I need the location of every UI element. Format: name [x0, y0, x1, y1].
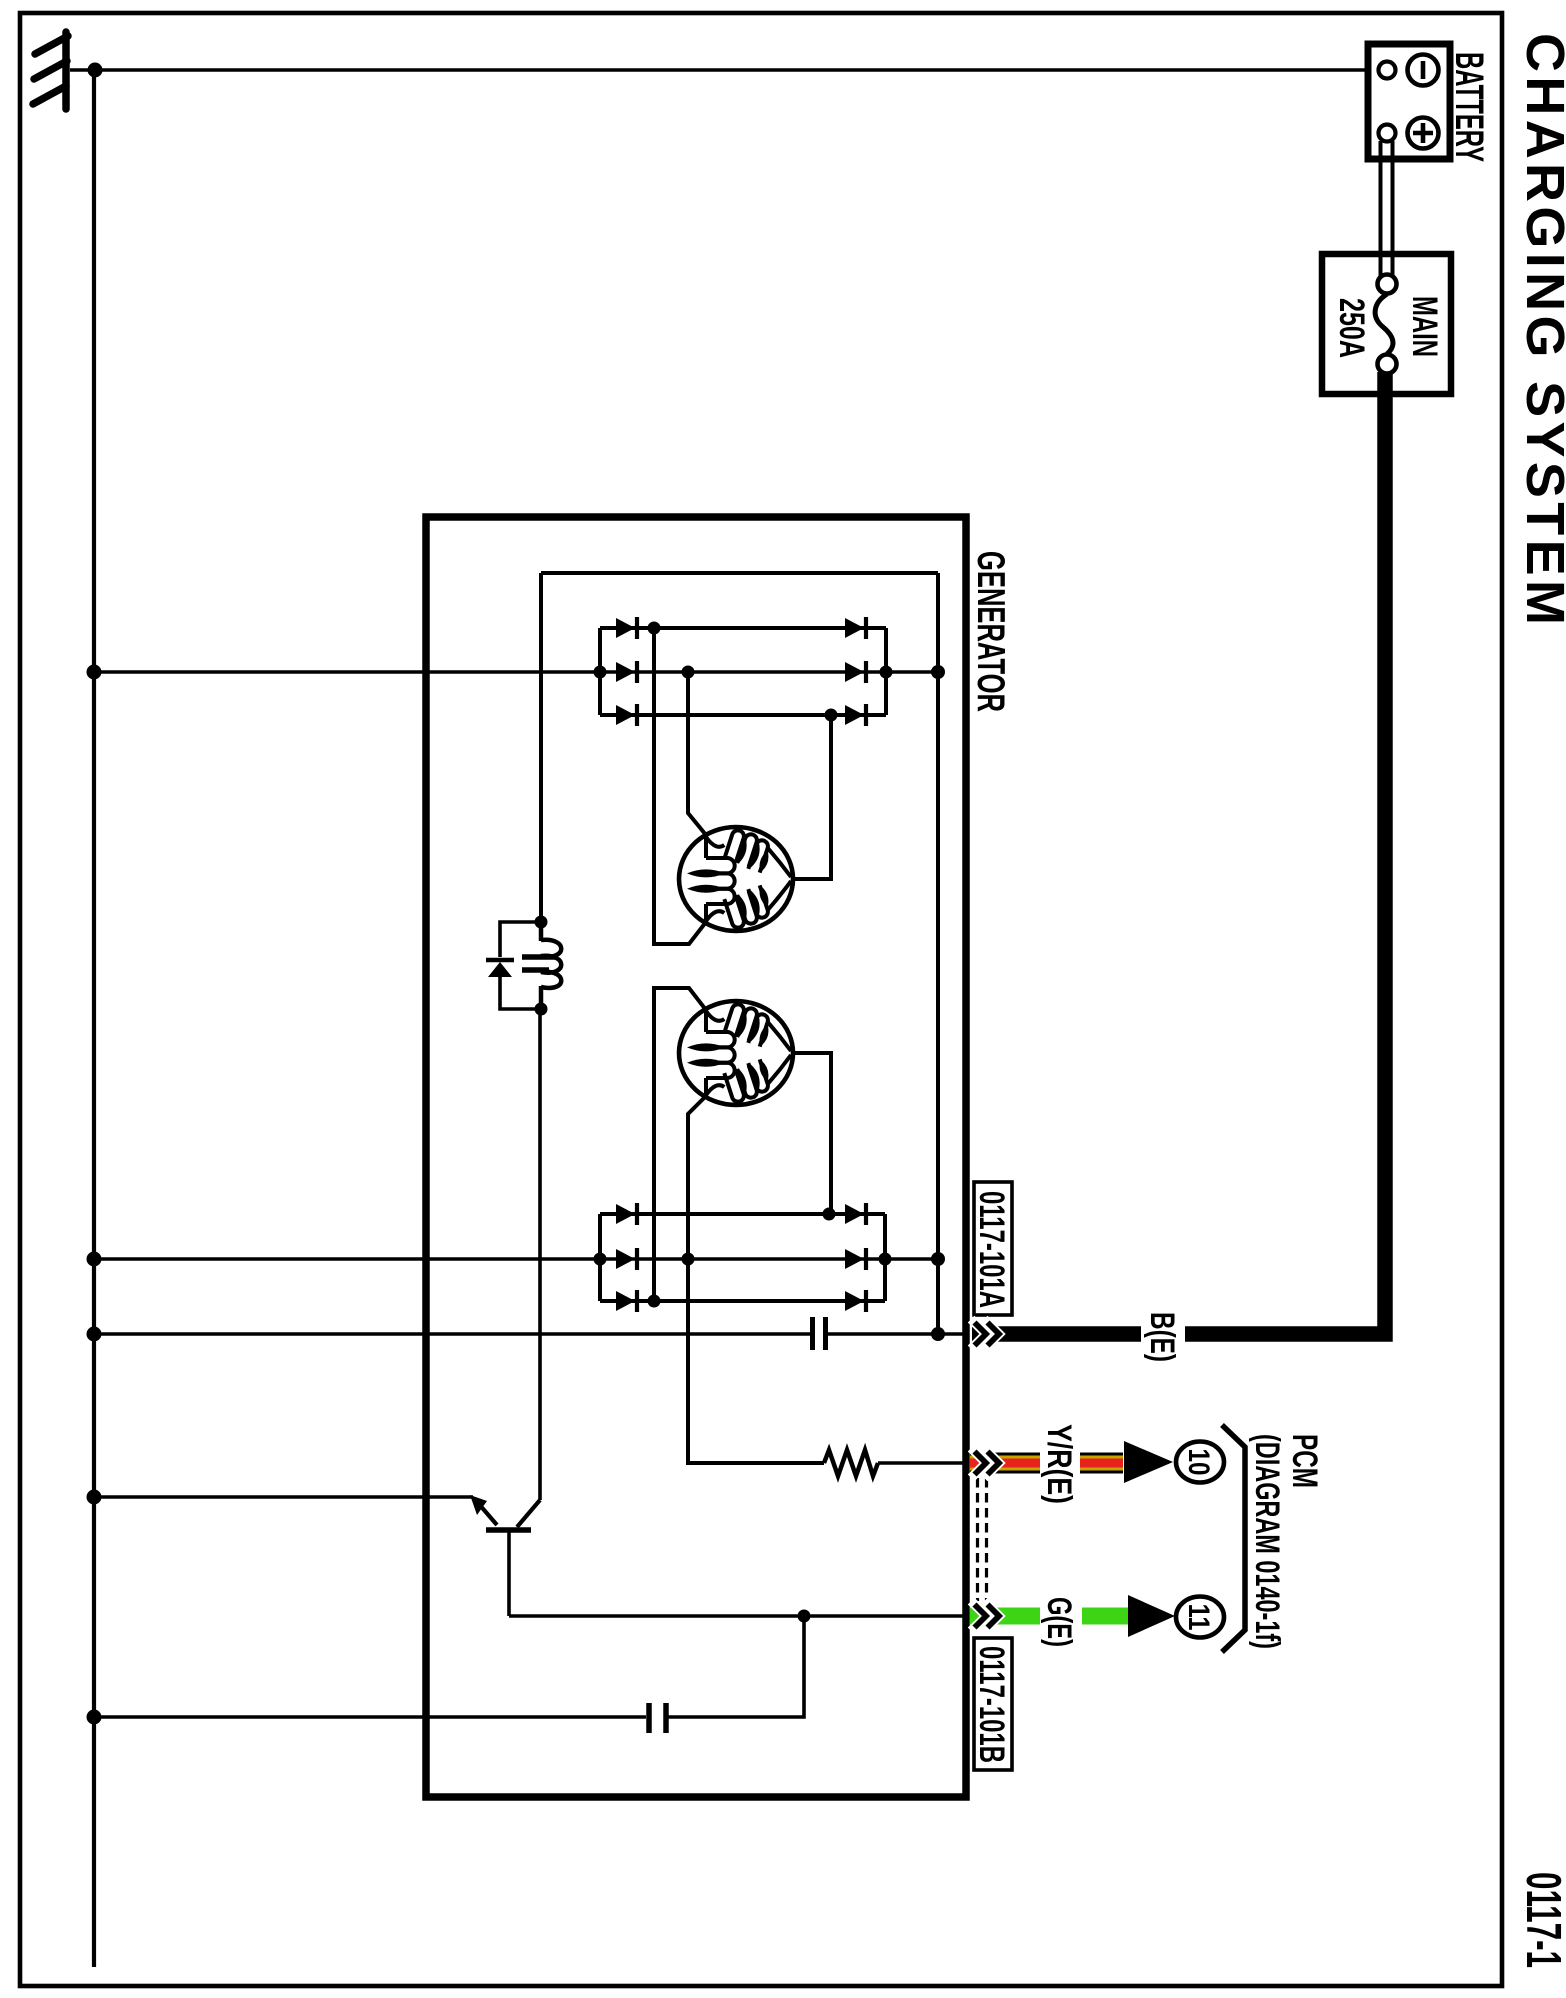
svg-text:PCM: PCM — [1285, 1434, 1324, 1488]
svg-text:11: 11 — [1182, 1604, 1215, 1631]
svg-text:10: 10 — [1182, 1449, 1215, 1476]
PCM bracket — [1222, 1425, 1245, 1652]
node bridge1 rail left row2 — [594, 666, 607, 679]
arrow to pin 11 — [1128, 1595, 1175, 1637]
arrow to pin 10 — [1124, 1441, 1173, 1483]
fuse F1 MAIN box — [1322, 254, 1451, 394]
capacitor C1 — [813, 1317, 826, 1350]
diode D7 — [616, 1203, 637, 1225]
generator box — [426, 517, 966, 1797]
wire ground to node — [70, 68, 95, 72]
node bridge2 row3 — [648, 1295, 661, 1308]
svg-text:G(E): G(E) — [1040, 1597, 1078, 1647]
connector chevron G(E) — [975, 1605, 1000, 1628]
diode D4 — [845, 617, 866, 639]
ground — [33, 32, 68, 109]
node cap2 left rail — [87, 1710, 102, 1725]
wire top horizontal to battery minus — [95, 68, 1368, 72]
wire stator1 lead V — [654, 628, 706, 944]
resistor R1 — [824, 1450, 878, 1476]
node bridge2 B+ bus — [931, 1252, 945, 1266]
wire emitter row — [94, 1495, 473, 1499]
stator winding L2 — [679, 1001, 793, 1105]
node field bottom — [535, 1003, 548, 1016]
wire stator2 lead W — [793, 1053, 831, 1214]
svg-text:250A: 250A — [1332, 298, 1371, 358]
node bridge2 rail right row2 — [879, 1253, 892, 1266]
wire dashed twist pair — [978, 1478, 987, 1601]
wire battery to fuse double line — [1381, 141, 1393, 276]
svg-text:(DIAGRAM 0140-1f): (DIAGRAM 0140-1f) — [1248, 1434, 1286, 1649]
diode D10 — [845, 1203, 866, 1225]
node bridge1 rail right row2 — [880, 666, 893, 679]
rectifier bridge 2 rails — [600, 1214, 885, 1301]
node gate row — [798, 1610, 811, 1623]
rectifier bridge 1 rails — [600, 628, 886, 715]
diode D6 — [845, 704, 866, 726]
svg-text:0117-101B: 0117-101B — [972, 1646, 1011, 1763]
fuse top pin — [1378, 275, 1397, 294]
fuse bottom pin — [1378, 355, 1397, 374]
node left rail row2 top — [87, 665, 102, 680]
pin 10 circle — [1176, 1442, 1224, 1483]
node bridge1 row1 — [648, 622, 661, 635]
diode D2 — [616, 661, 637, 683]
inductor L3 field coil — [541, 922, 561, 1009]
wire B(E) thick battery feed — [972, 372, 1385, 1334]
wire stator1 lead W — [793, 715, 831, 879]
stator winding L1 — [679, 827, 793, 931]
label connector 0117-101B — [972, 1638, 1012, 1770]
svg-text:MAIN: MAIN — [1405, 296, 1444, 357]
diode D12 — [845, 1290, 866, 1312]
svg-text:Y/R(E): Y/R(E) — [1040, 1424, 1078, 1504]
wire rectifier bottom row2 — [94, 1257, 938, 1261]
node bridge1 phase U tap — [682, 666, 695, 679]
wire stator1 lead U — [688, 672, 706, 835]
wire base lead — [507, 1532, 511, 1616]
battery minus symbol — [1408, 55, 1439, 86]
pin 11 circle — [1176, 1597, 1224, 1638]
battery U1 box — [1368, 44, 1450, 159]
svg-text:0117-1: 0117-1 — [1516, 1872, 1566, 1968]
node ground junction — [88, 63, 103, 78]
capacitor C1 row — [94, 1332, 810, 1336]
battery minus terminal pin — [1379, 62, 1396, 79]
wire field diode branch — [500, 922, 541, 957]
capacitor C2 — [649, 1703, 666, 1733]
diode D13 field flyback — [486, 960, 514, 977]
wire inner B+ loop top — [541, 571, 938, 575]
node bridge1 B+ bus row2 — [931, 665, 945, 679]
node cap1 bus — [931, 1327, 945, 1341]
svg-text:0117-101A: 0117-101A — [972, 1191, 1011, 1308]
wire gate row to connector — [509, 1614, 966, 1618]
diode D5 — [845, 661, 866, 683]
wire B+ vertical bus — [936, 573, 940, 1334]
svg-text:BATTERY: BATTERY — [1447, 52, 1491, 162]
wire stator2 lead V — [654, 988, 706, 1301]
svg-text:B(E): B(E) — [1143, 1312, 1181, 1362]
node left rail row2 bottom — [87, 1252, 102, 1267]
diode D3 — [616, 704, 637, 726]
connector chevron B(E) — [975, 1323, 1000, 1346]
wire left ground rail — [92, 70, 96, 1967]
fuse element — [1375, 294, 1393, 354]
node cap1 left rail — [87, 1327, 102, 1342]
connector chevron Y/R(E) — [975, 1452, 1000, 1475]
wire rectifier top row2 phase U — [94, 670, 938, 674]
node emitter rail — [87, 1490, 102, 1505]
node bridge2 phase tap — [682, 1253, 695, 1266]
capacitor C2 row — [94, 1715, 646, 1719]
node field top — [535, 916, 548, 929]
diode D11 — [845, 1248, 866, 1270]
wire field feed vertical — [539, 573, 543, 922]
node bridge1 row3 — [825, 709, 838, 722]
label connector 0117-101A — [972, 1182, 1012, 1315]
diode D1 — [616, 617, 637, 639]
wire collector vertical — [538, 1009, 542, 1500]
wire stator2 lead U resistor feed — [688, 1096, 824, 1463]
svg-text:GENERATOR: GENERATOR — [969, 551, 1012, 712]
wire resistor to connector — [878, 1461, 966, 1465]
wire Y/R(E) colored — [970, 1453, 1123, 1474]
diode D8 — [616, 1248, 637, 1270]
wire G(E) green — [970, 1608, 1128, 1625]
battery plus terminal pin — [1379, 125, 1396, 142]
node bridge2 row1 — [823, 1208, 836, 1221]
diode D9 — [616, 1290, 637, 1312]
node bridge2 rail left row2 — [594, 1253, 607, 1266]
battery plus symbol — [1408, 118, 1439, 149]
